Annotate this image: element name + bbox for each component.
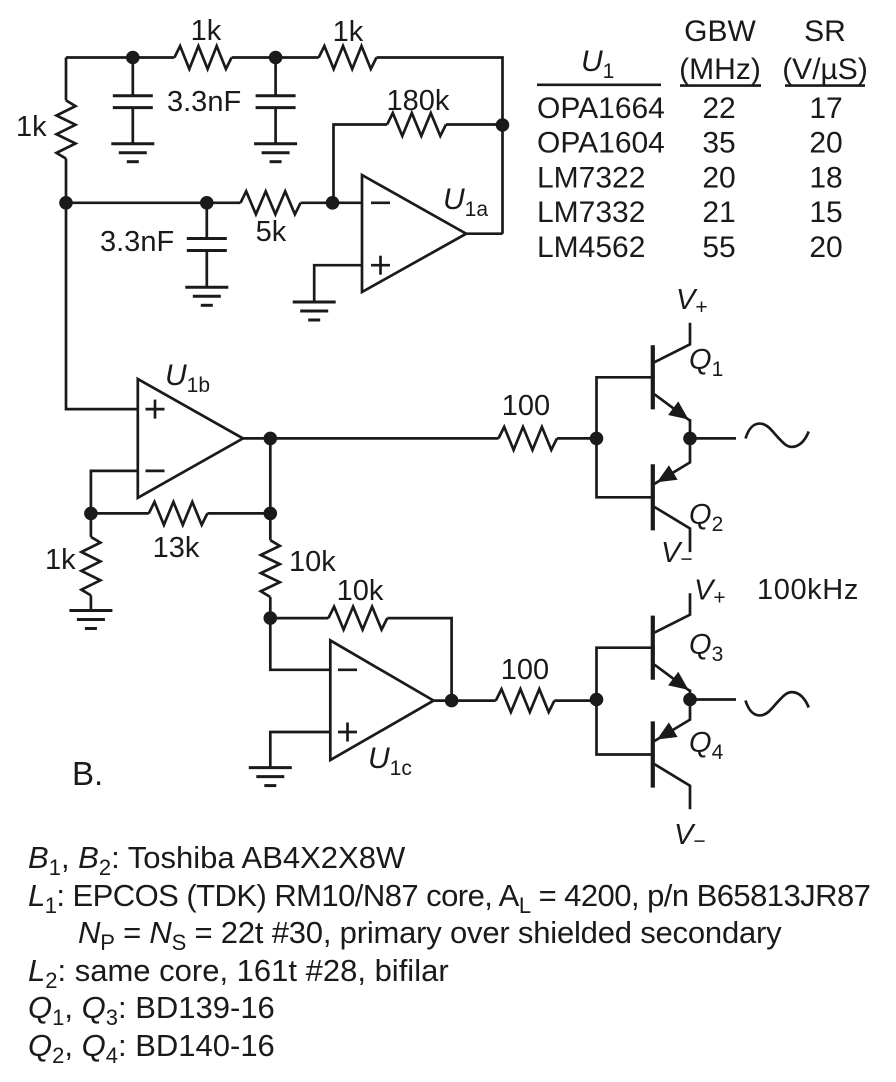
node 10k bottom junction [264, 611, 278, 625]
svg-text:35: 35 [702, 127, 735, 160]
svg-text:LM7332: LM7332 [537, 196, 645, 229]
resistor R 1k (left vertical) [65, 58, 68, 101]
svg-text:180k: 180k [387, 85, 450, 117]
wire 10k node to U1c inverting input [270, 618, 330, 670]
wire U1c output [434, 699, 496, 702]
svg-text:LM4562: LM4562 [537, 231, 645, 264]
wire output [690, 437, 736, 440]
svg-text:V−: V− [674, 819, 706, 853]
wire top rail [66, 56, 174, 59]
svg-text:L1​: EPCOS (TDK) RM10/N87 core: L1​: EPCOS (TDK) RM10/N87 core, AL​ = 42… [28, 878, 870, 918]
transistor Q2 emitter [655, 443, 691, 483]
svg-text:U1a: U1a [443, 183, 488, 221]
node base input junction [590, 432, 604, 446]
svg-text:1k: 1k [16, 111, 47, 143]
wire 13k right lead [207, 512, 270, 515]
wire lower rail [66, 201, 241, 204]
svg-text:1k: 1k [191, 15, 222, 47]
node top-A junction [126, 51, 140, 65]
svg-text:Q2​, Q4​: BD140-16: Q2​, Q4​: BD140-16 [28, 1028, 275, 1068]
wire U1a output [466, 232, 502, 235]
wire U1a non-inverting lead [314, 265, 362, 302]
op-amp U1b [138, 379, 243, 498]
transistor Q1 base bar [651, 345, 655, 409]
transistor Q4 emitter arrow [657, 722, 678, 739]
U1b non-inverting input marker [146, 408, 165, 411]
wire 180k right lead [446, 123, 503, 126]
resistor R 5k [241, 191, 301, 214]
transistor Q1 collector [655, 323, 691, 362]
resistor R 10k (feedback) [328, 607, 387, 630]
resistor R 1k (to ground) [90, 513, 93, 537]
node U1a inverting input junction [326, 196, 340, 210]
svg-text:20: 20 [809, 127, 842, 160]
ground (under third cap) [185, 286, 228, 289]
node U1b output junction [264, 432, 278, 446]
wire 100 to Q1Q2 base node [557, 437, 597, 440]
svg-text:100kHz: 100kHz [757, 574, 859, 606]
wire 13k left lead [91, 512, 149, 515]
transistor Q1 emitter arrow [668, 401, 688, 419]
output sine symbol (upper) [746, 424, 809, 447]
svg-text:1k: 1k [333, 16, 364, 48]
svg-text:100: 100 [501, 654, 549, 686]
svg-text:GBW: GBW [684, 15, 756, 48]
capacitor C 3.3nF (second) [274, 58, 277, 97]
svg-text:20: 20 [809, 231, 842, 264]
wire base rail 12 [597, 377, 652, 497]
wire U1b output to 13k node [269, 438, 272, 513]
svg-text:SR: SR [804, 15, 846, 48]
output sine symbol (lower) [746, 692, 809, 715]
transistor Q4 base bar [651, 721, 655, 787]
svg-text:(MHz): (MHz) [679, 53, 761, 86]
resistor R 13k [149, 502, 208, 525]
transistor Q3 collector [655, 593, 691, 632]
svg-text:NP​ = NS​ = 22t #30, primary o: NP​ = NS​ = 22t #30, primary over shield… [78, 915, 782, 955]
svg-text:Q1​, Q3​: BD139-16: Q1​, Q3​: BD139-16 [28, 990, 275, 1030]
svg-text:10k: 10k [337, 575, 384, 607]
ground (under second cap) [254, 142, 297, 145]
wire 5k to U1a inverting input [301, 201, 362, 204]
wire base rail 34 [597, 648, 652, 755]
node top-B junction [269, 51, 283, 65]
table rule under GBW [680, 84, 761, 87]
U1c inverting input marker [338, 668, 357, 671]
svg-text:U1b: U1b [165, 359, 210, 397]
transistor Q2 emitter arrow [657, 465, 678, 482]
svg-text:(V/µS): (V/µS) [782, 53, 868, 86]
resistor R 100 (lower) [496, 689, 555, 712]
svg-text:U1c: U1c [368, 742, 412, 780]
transistor Q4 collector [655, 764, 691, 809]
node 180k feedback junction [496, 118, 510, 132]
svg-text:B1​, B2​: Toshiba AB4X2X8W: B1​, B2​: Toshiba AB4X2X8W [28, 840, 406, 880]
svg-text:Q3: Q3 [689, 629, 723, 666]
svg-text:B.: B. [72, 755, 103, 792]
wire top rail to corner [377, 58, 503, 234]
ground (under first cap) [111, 142, 154, 145]
svg-text:OPA1664: OPA1664 [537, 92, 665, 125]
table rule under SR [785, 84, 865, 87]
wire 180k left lead [334, 125, 388, 203]
node U1c output junction [445, 694, 459, 708]
wire output [690, 698, 736, 701]
wire U1c non-inverting lead [270, 732, 330, 768]
U1a non-inverting input marker [371, 264, 390, 267]
transistor Q3 emitter arrow [668, 672, 688, 690]
wire left rail down to U1b [66, 203, 138, 409]
ground (U1c non-inverting) [249, 766, 292, 769]
resistor R 1k (top left) [174, 46, 231, 69]
svg-text:22: 22 [702, 92, 735, 125]
table rule under U1 [537, 84, 661, 87]
wire 10k feedback left lead [270, 617, 328, 620]
node emitter junction [683, 432, 697, 446]
node lower-left junction [59, 196, 73, 210]
node 13k left junction [84, 507, 98, 521]
ground (under 1k) [69, 609, 112, 612]
transistor Q1 emitter [655, 394, 691, 433]
svg-text:100: 100 [502, 390, 550, 422]
svg-text:1k: 1k [45, 544, 76, 576]
svg-text:3.3nF: 3.3nF [167, 86, 241, 118]
svg-text:Q4: Q4 [689, 727, 724, 764]
svg-text:Q2: Q2 [689, 499, 723, 536]
svg-text:Q1: Q1 [689, 344, 723, 381]
U1a inverting input marker [371, 201, 390, 204]
svg-text:U1: U1 [581, 45, 614, 83]
transistor Q3 emitter [655, 665, 691, 695]
ground (U1a non-inverting) [293, 301, 336, 304]
transistor Q4 emitter [655, 705, 691, 742]
node 13k right junction [264, 507, 278, 521]
wire 100 to Q3Q4 base node [554, 699, 596, 702]
transistor Q2 base bar [651, 464, 655, 530]
node emitter junction [683, 693, 697, 707]
U1c non-inverting input marker [338, 731, 357, 734]
node cap3 junction [200, 196, 214, 210]
svg-text:17: 17 [809, 92, 842, 125]
svg-text:LM7322: LM7322 [537, 161, 645, 194]
wire 10k feedback right lead [387, 618, 451, 701]
node base input junction [590, 693, 604, 707]
svg-text:20: 20 [702, 161, 735, 194]
resistor R 100 (upper) [499, 427, 558, 450]
capacitor C 3.3nF (third) [205, 203, 208, 239]
svg-text:3.3nF: 3.3nF [100, 226, 174, 258]
resistor R 180k [387, 113, 446, 136]
transistor Q3 base bar [651, 616, 655, 680]
U1b inverting input marker [146, 470, 165, 473]
transistor Q2 collector [655, 507, 691, 552]
svg-text:OPA1604: OPA1604 [537, 127, 665, 160]
svg-text:55: 55 [702, 231, 735, 264]
wire U1b output rail [243, 437, 499, 440]
op-amp U1c [330, 640, 433, 760]
wire U1b inverting lead [91, 471, 138, 514]
svg-text:5k: 5k [256, 216, 287, 248]
svg-text:V−: V− [661, 537, 693, 571]
svg-text:V+: V+ [676, 284, 708, 319]
svg-text:10k: 10k [289, 546, 336, 578]
svg-text:13k: 13k [153, 532, 200, 564]
svg-text:L2​: same core, 161t #28, bifi: L2​: same core, 161t #28, bifilar [28, 953, 449, 993]
op-amp U1a [362, 175, 466, 292]
svg-text:V+: V+ [694, 575, 726, 610]
svg-text:21: 21 [702, 196, 735, 229]
capacitor C 3.3nF (first) [131, 58, 134, 97]
svg-text:15: 15 [809, 196, 842, 229]
svg-text:18: 18 [809, 161, 842, 194]
wire top rail mid [232, 56, 319, 59]
resistor R 1k (top right) [319, 46, 377, 69]
resistor R 10k (vertical) [269, 513, 272, 540]
